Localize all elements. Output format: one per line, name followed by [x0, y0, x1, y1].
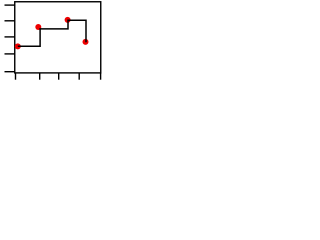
y tick 3: [5, 36, 15, 38]
background: [0, 0, 104, 87]
y tick 1: [5, 4, 15, 6]
x tick 1: [15, 73, 17, 80]
data point 2: [35, 24, 41, 30]
step line: [18, 20, 86, 46]
x tick 3: [58, 73, 60, 80]
axes frame (spines): [15, 2, 101, 73]
y tick 2: [5, 20, 15, 22]
x tick 5: [100, 73, 102, 80]
step chart: [0, 0, 104, 87]
y tick 5: [5, 71, 15, 73]
x tick 2: [39, 73, 41, 80]
data point 3: [65, 17, 71, 23]
data point 4: [83, 39, 89, 45]
x tick 4: [78, 73, 80, 80]
data point 1: [15, 43, 21, 49]
y tick 4: [5, 53, 15, 55]
